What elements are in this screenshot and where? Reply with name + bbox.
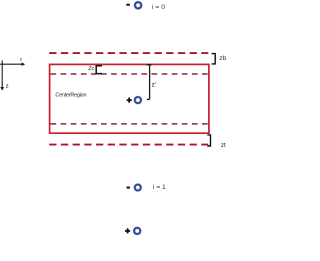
z' measurement line [147,65,152,100]
CenterRegion solid red rectangle [50,64,209,133]
top-right bracket ] for zb [212,54,216,64]
top outer dashed boundary line [49,52,208,54]
current loop symbol (center) [133,96,142,105]
current loop symbol (bottom) [133,226,142,235]
svg-text:zb: zb [220,55,227,62]
svg-text:Zc: Zc [88,66,94,72]
current loop symbol (i = 1) [133,183,142,192]
current loop symbol (top, i = 0) [134,1,143,10]
minus sign (top row, i = 0) [126,4,129,6]
axis z (vertical arrow, down) [0,61,4,91]
bottom-right bracket ] for zt [207,135,210,146]
inner top dashed line [51,73,208,75]
svg-text:z: z [6,83,9,89]
svg-text:zt: zt [221,142,226,149]
bottom outer dashed boundary line [49,144,208,146]
svg-text:r: r [20,57,22,63]
svg-text:i = 0: i = 0 [152,4,165,11]
svg-text:CenterRegion: CenterRegion [55,93,86,99]
svg-text:z': z' [152,81,157,88]
axis r (horizontal arrow) [0,62,25,66]
svg-text:i = 1: i = 1 [153,184,166,191]
inner bottom dashed line [51,123,208,125]
Zc bracket [ [96,66,102,74]
minus sign (row i = 1) [127,187,130,189]
plus sign (bottom) [125,228,130,233]
plus sign (center current) [127,98,132,103]
